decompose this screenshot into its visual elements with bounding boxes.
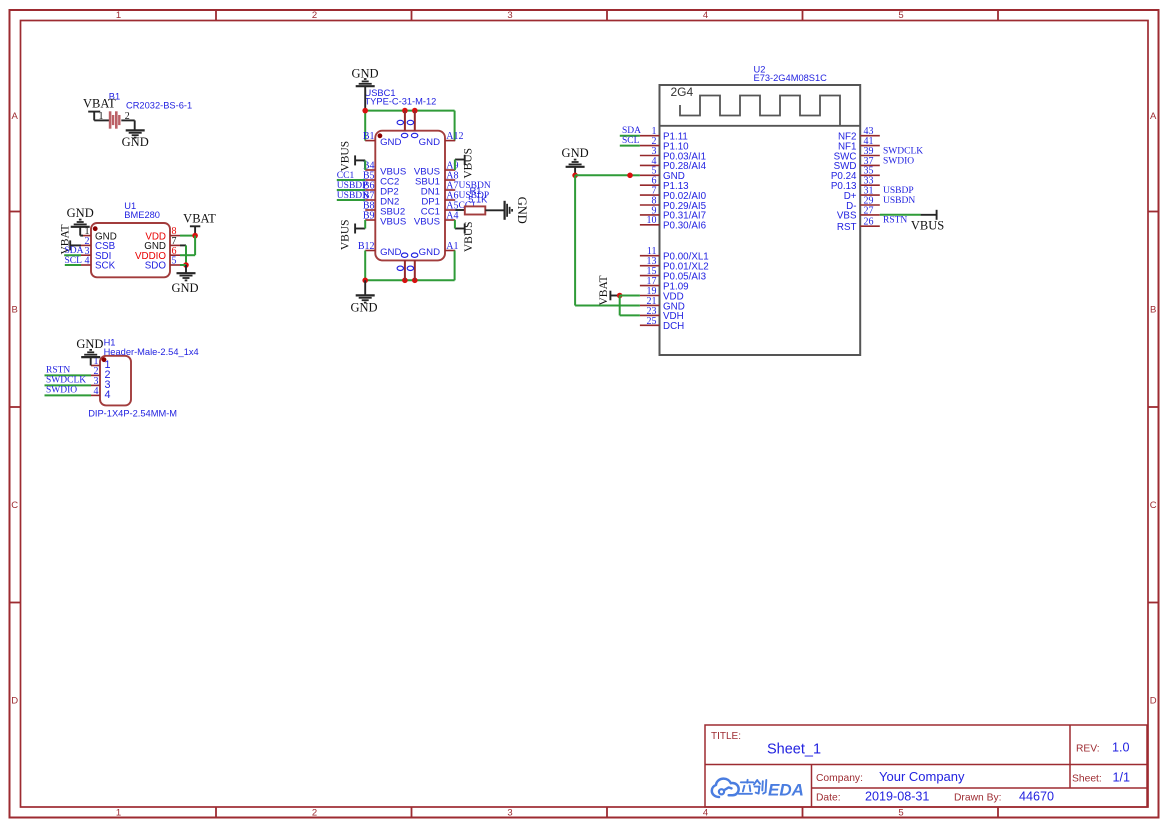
- svg-text:2019-08-31: 2019-08-31: [865, 790, 929, 804]
- wire U2 pin 27 to VBUS: [880, 214, 937, 216]
- svg-text:5: 5: [898, 10, 903, 21]
- ground (U2 left): [562, 146, 589, 175]
- svg-text:E73-2G4M08S1C: E73-2G4M08S1C: [754, 73, 828, 83]
- svg-text:H1: H1: [104, 337, 116, 347]
- battery B1: [109, 91, 192, 110]
- title block text: [711, 731, 1130, 804]
- svg-text:GND: GND: [171, 281, 198, 295]
- svg-text:USBDN: USBDN: [883, 196, 915, 206]
- svg-text:RSTN: RSTN: [883, 216, 907, 226]
- svg-text:TITLE:: TITLE:: [711, 731, 741, 742]
- USBC1 left pin stubs: [365, 141, 375, 251]
- svg-text:VBAT: VBAT: [598, 275, 610, 305]
- svg-text:1: 1: [116, 807, 121, 818]
- svg-text:SDO: SDO: [145, 261, 167, 272]
- ground (battery): [122, 130, 149, 149]
- U1 pin names: [95, 231, 166, 271]
- wire VBAT to U2 pin 23: [620, 296, 640, 316]
- svg-text:1: 1: [116, 10, 121, 21]
- title block: [705, 725, 1147, 807]
- svg-text:Sheet:: Sheet:: [1072, 774, 1102, 785]
- svg-text:2: 2: [312, 807, 317, 818]
- svg-text:Header-Male-2.54_1x4: Header-Male-2.54_1x4: [104, 347, 199, 357]
- net flag VBAT (U1 right): [183, 212, 216, 236]
- wire USBC1 bottom GND bus: [365, 251, 454, 281]
- svg-text:GND: GND: [419, 247, 440, 258]
- junction near U2 pin 5: [627, 173, 633, 179]
- svg-text:5: 5: [172, 256, 177, 267]
- svg-text:BME280: BME280: [124, 210, 160, 220]
- svg-text:4: 4: [85, 256, 90, 267]
- junctions USBC1 bottom: [362, 278, 417, 284]
- connector USBC1 body: [365, 88, 446, 260]
- net label SDA: [64, 246, 83, 256]
- svg-text:GND: GND: [122, 135, 149, 149]
- junction U1 pin 5: [183, 262, 189, 268]
- svg-text:SWDCLK: SWDCLK: [46, 375, 86, 385]
- svg-text:B: B: [12, 305, 18, 316]
- svg-text:SWDIO: SWDIO: [46, 385, 77, 395]
- svg-text:GND: GND: [419, 137, 440, 148]
- svg-text:Drawn By:: Drawn By:: [954, 793, 1002, 804]
- net label USBDP (B6): [337, 181, 368, 191]
- svg-text:5: 5: [898, 807, 903, 818]
- wire battery pin 1: [94, 119, 109, 121]
- wire B12 to bottom bus: [364, 251, 366, 281]
- svg-text:GND: GND: [380, 247, 401, 258]
- wire R1 to ground: [485, 209, 504, 211]
- U1 pin stubs: [81, 236, 180, 265]
- svg-text:GND: GND: [76, 337, 103, 351]
- svg-text:4: 4: [703, 807, 708, 818]
- resistor R1: [465, 186, 488, 215]
- svg-text:B9: B9: [363, 211, 375, 222]
- wire U1 pin 5: [180, 264, 186, 266]
- ground (U1 pin 1): [67, 206, 94, 235]
- ground (H1 pin 1): [76, 337, 103, 366]
- wire U1 pin 7 GND down: [180, 245, 186, 265]
- svg-text:GND: GND: [350, 301, 377, 315]
- svg-text:P0.30/AI6: P0.30/AI6: [663, 221, 707, 232]
- net label USBDN (B7): [337, 191, 369, 201]
- svg-text:EDA: EDA: [768, 780, 804, 799]
- junction U2 GND: [572, 173, 578, 179]
- svg-text:A12: A12: [446, 131, 463, 142]
- svg-text:VBUS: VBUS: [380, 216, 406, 227]
- H1 pin numbers: [94, 356, 111, 401]
- svg-text:SCK: SCK: [95, 261, 116, 272]
- antenna glyph 2G4: [671, 85, 841, 126]
- U2 pin numbers: [647, 126, 874, 327]
- svg-text:REV:: REV:: [1076, 744, 1100, 755]
- svg-text:4: 4: [105, 389, 111, 401]
- U2 left pin stubs: [640, 136, 660, 326]
- svg-text:A: A: [12, 111, 19, 122]
- net label SCL (U2 pin 2): [620, 136, 640, 146]
- svg-text:USBDP: USBDP: [883, 186, 914, 196]
- svg-text:5.1K: 5.1K: [468, 194, 488, 204]
- svg-text:27: 27: [864, 205, 874, 216]
- wire GND down to U2 pin 21: [575, 175, 640, 305]
- wire VDD to VBAT: [180, 235, 195, 237]
- svg-text:B12: B12: [358, 241, 375, 252]
- svg-text:GND: GND: [67, 206, 94, 220]
- header H1 body: [88, 337, 198, 418]
- H1 pin stubs: [91, 366, 100, 396]
- net label SCL: [65, 256, 83, 266]
- svg-text:VBS: VBS: [837, 211, 857, 222]
- svg-text:D: D: [1150, 695, 1157, 706]
- U2 right pin stubs: [860, 136, 880, 227]
- svg-text:3: 3: [507, 807, 512, 818]
- svg-text:VBUS: VBUS: [340, 219, 352, 250]
- battery cell symbol: [110, 111, 119, 128]
- svg-text:A4: A4: [446, 211, 458, 222]
- svg-text:VBUS: VBUS: [339, 141, 351, 172]
- svg-text:1: 1: [99, 111, 104, 122]
- ground (R1): [505, 197, 529, 224]
- svg-text:D: D: [11, 695, 18, 706]
- svg-text:VBAT: VBAT: [83, 97, 116, 111]
- svg-text:C: C: [11, 500, 18, 511]
- ground (U1 pin 5): [171, 265, 198, 295]
- svg-text:4: 4: [703, 10, 708, 21]
- svg-text:C: C: [1150, 500, 1157, 511]
- junctions USBC1 top: [362, 108, 417, 114]
- ground (USBC1 top): [351, 66, 378, 110]
- net flag VBAT (battery): [83, 97, 116, 121]
- svg-text:Your Company: Your Company: [879, 769, 965, 784]
- svg-text:B: B: [1150, 305, 1156, 316]
- svg-text:GND: GND: [380, 137, 401, 148]
- net label SWDIO: [45, 385, 92, 395]
- U2 pin names: [663, 132, 857, 333]
- svg-text:RSTN: RSTN: [46, 365, 70, 375]
- wire VBAT to U2 pin 19: [620, 295, 640, 297]
- module U2 E73-2G4M08S1C body: [660, 64, 861, 355]
- svg-text:1.0: 1.0: [1112, 741, 1130, 755]
- svg-text:1/1: 1/1: [1113, 771, 1131, 785]
- svg-text:Sheet_1: Sheet_1: [767, 742, 821, 758]
- svg-text:VBUS: VBUS: [414, 216, 440, 227]
- svg-text:B1: B1: [363, 131, 375, 142]
- svg-text:CR2032-BS-6-1: CR2032-BS-6-1: [126, 101, 192, 111]
- svg-text:25: 25: [647, 316, 657, 327]
- USBC1 shield pins top: [397, 111, 418, 138]
- wire GND to U2 pin 5: [575, 174, 640, 176]
- USBC1 right pin stubs: [445, 141, 455, 251]
- net flag VBUS (B9): [340, 219, 366, 250]
- wire battery pin 2: [121, 120, 134, 130]
- svg-text:TYPE-C-31-M-12: TYPE-C-31-M-12: [365, 96, 437, 106]
- svg-text:SWDIO: SWDIO: [883, 156, 914, 166]
- svg-text:SWDCLK: SWDCLK: [883, 146, 923, 156]
- net label SWDCLK: [45, 375, 92, 385]
- svg-text:RST: RST: [837, 222, 857, 233]
- wire USBC1 top GND bus: [365, 111, 454, 141]
- EasyEDA logo: [712, 779, 767, 797]
- svg-text:4: 4: [94, 386, 99, 397]
- svg-text:10: 10: [647, 215, 657, 226]
- svg-text:VBAT: VBAT: [183, 212, 216, 226]
- IC U1 BME280 body: [91, 201, 170, 277]
- svg-text:2G4: 2G4: [671, 85, 694, 99]
- USBC1 shield pins bottom: [397, 253, 418, 280]
- net flag VBAT (U2): [598, 275, 620, 305]
- U1 pin numbers: [85, 226, 177, 266]
- svg-text:VBUS: VBUS: [911, 219, 944, 233]
- svg-text:A1: A1: [446, 241, 458, 252]
- net label RSTN: [45, 365, 92, 375]
- svg-text:DIP-1X4P-2.54MM-M: DIP-1X4P-2.54MM-M: [88, 408, 177, 418]
- svg-text:GND: GND: [562, 146, 589, 160]
- wire VBAT to VDDIO: [180, 236, 195, 256]
- net flag VBUS (A9): [455, 148, 474, 179]
- wire U1 pin 1 to ground: [80, 235, 83, 237]
- ground (USBC1 bottom): [350, 280, 377, 314]
- svg-text:3: 3: [507, 10, 512, 21]
- net label CC1 (B5): [337, 171, 365, 181]
- svg-text:A: A: [1150, 111, 1157, 122]
- net flag VBAT (U1 pin 2): [60, 224, 81, 254]
- net flag VBUS (U2): [911, 210, 944, 233]
- net label SDA (U2 pin 1): [620, 126, 641, 136]
- svg-text:44670: 44670: [1019, 790, 1054, 804]
- net flag VBUS (A4): [455, 220, 475, 252]
- svg-text:26: 26: [864, 217, 874, 228]
- battery pin numbers: [99, 111, 130, 122]
- svg-text:DCH: DCH: [663, 321, 684, 332]
- svg-text:GND: GND: [515, 197, 529, 224]
- junction VBAT U1: [192, 233, 198, 239]
- wire A5 to R1: [455, 209, 465, 211]
- USBC1 pin numbers: [358, 131, 464, 252]
- junction VBAT U2: [617, 293, 623, 299]
- USBC1 pin names: [380, 137, 440, 258]
- net flag VBUS (B4): [339, 141, 365, 172]
- svg-text:Date:: Date:: [816, 793, 841, 804]
- svg-text:Company:: Company:: [816, 773, 863, 784]
- svg-text:2: 2: [312, 10, 317, 21]
